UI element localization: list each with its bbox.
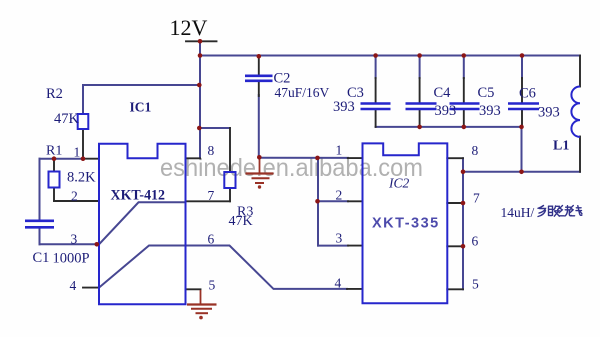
svg-text:4: 4 [70, 278, 77, 293]
svg-text:5: 5 [209, 278, 216, 293]
svg-text:IC2: IC2 [388, 176, 410, 191]
svg-text:L1: L1 [553, 139, 569, 154]
svg-text:1000P: 1000P [53, 250, 90, 266]
svg-text:R2: R2 [46, 86, 63, 102]
svg-text:C6: C6 [519, 85, 536, 101]
svg-text:6: 6 [208, 232, 215, 247]
svg-text:XKT-412: XKT-412 [111, 188, 166, 204]
svg-text:R1: R1 [46, 144, 62, 159]
svg-text:5: 5 [472, 277, 479, 292]
svg-text:47uF/16V: 47uF/16V [275, 85, 330, 100]
svg-text:C5: C5 [478, 85, 495, 101]
svg-text:3: 3 [336, 231, 343, 246]
svg-text:8: 8 [208, 143, 215, 158]
svg-text:7: 7 [208, 188, 215, 203]
svg-text:4: 4 [335, 275, 342, 290]
svg-text:12V: 12V [170, 15, 208, 40]
svg-text:1: 1 [74, 145, 81, 160]
svg-text:393: 393 [479, 103, 501, 119]
svg-text:1: 1 [336, 143, 343, 158]
svg-text:8.2K: 8.2K [67, 170, 96, 186]
svg-text:XKT-335: XKT-335 [372, 216, 440, 232]
svg-text:47K: 47K [229, 214, 253, 229]
svg-text:IC1: IC1 [130, 100, 152, 115]
svg-text:C4: C4 [434, 85, 452, 101]
svg-text:47K: 47K [54, 111, 80, 127]
svg-text:3: 3 [71, 231, 78, 246]
svg-text:8: 8 [472, 143, 479, 158]
svg-text:C1: C1 [33, 250, 50, 266]
svg-text:7: 7 [473, 191, 480, 206]
svg-text:393: 393 [333, 99, 355, 115]
svg-text:393: 393 [538, 104, 560, 120]
svg-text:2: 2 [71, 188, 78, 203]
svg-text:2: 2 [336, 188, 343, 203]
svg-text:393: 393 [435, 103, 457, 119]
svg-text:6: 6 [472, 234, 479, 249]
svg-text:14uH/: 14uH/ [501, 205, 535, 220]
